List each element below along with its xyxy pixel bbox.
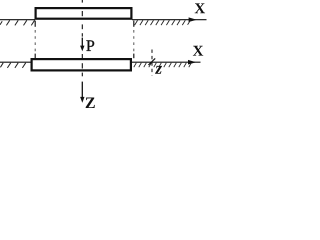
hatching upper-right: [135, 20, 191, 25]
centre dashed axis line: [81, 0, 83, 76]
hatching lower-right: [134, 63, 192, 67]
label Z: [86, 98, 95, 108]
force arrow P: [81, 38, 83, 48]
hatching lower-left: [0, 63, 25, 68]
Z axis arrow: [81, 82, 83, 100]
X axis lower (ground line right + arrow): [131, 61, 201, 63]
label X lower: [193, 46, 203, 56]
depth marker dashed line (z): [151, 50, 153, 76]
label X upper: [195, 3, 205, 13]
X axis upper (ground line right + arrow): [132, 19, 207, 21]
dashed edge line left (x=35.2): [34, 21, 36, 59]
plate upper (surface slab): [36, 8, 132, 19]
ground line upper-left: [0, 19, 35, 21]
label z: [155, 66, 162, 74]
hatching upper-left: [0, 20, 35, 25]
label P: [86, 40, 94, 50]
plate lower (buried slab): [32, 59, 131, 70]
ground line lower-left: [0, 61, 31, 63]
depth tick: [148, 58, 155, 65]
dashed edge line right (x=133.8): [133, 21, 135, 59]
